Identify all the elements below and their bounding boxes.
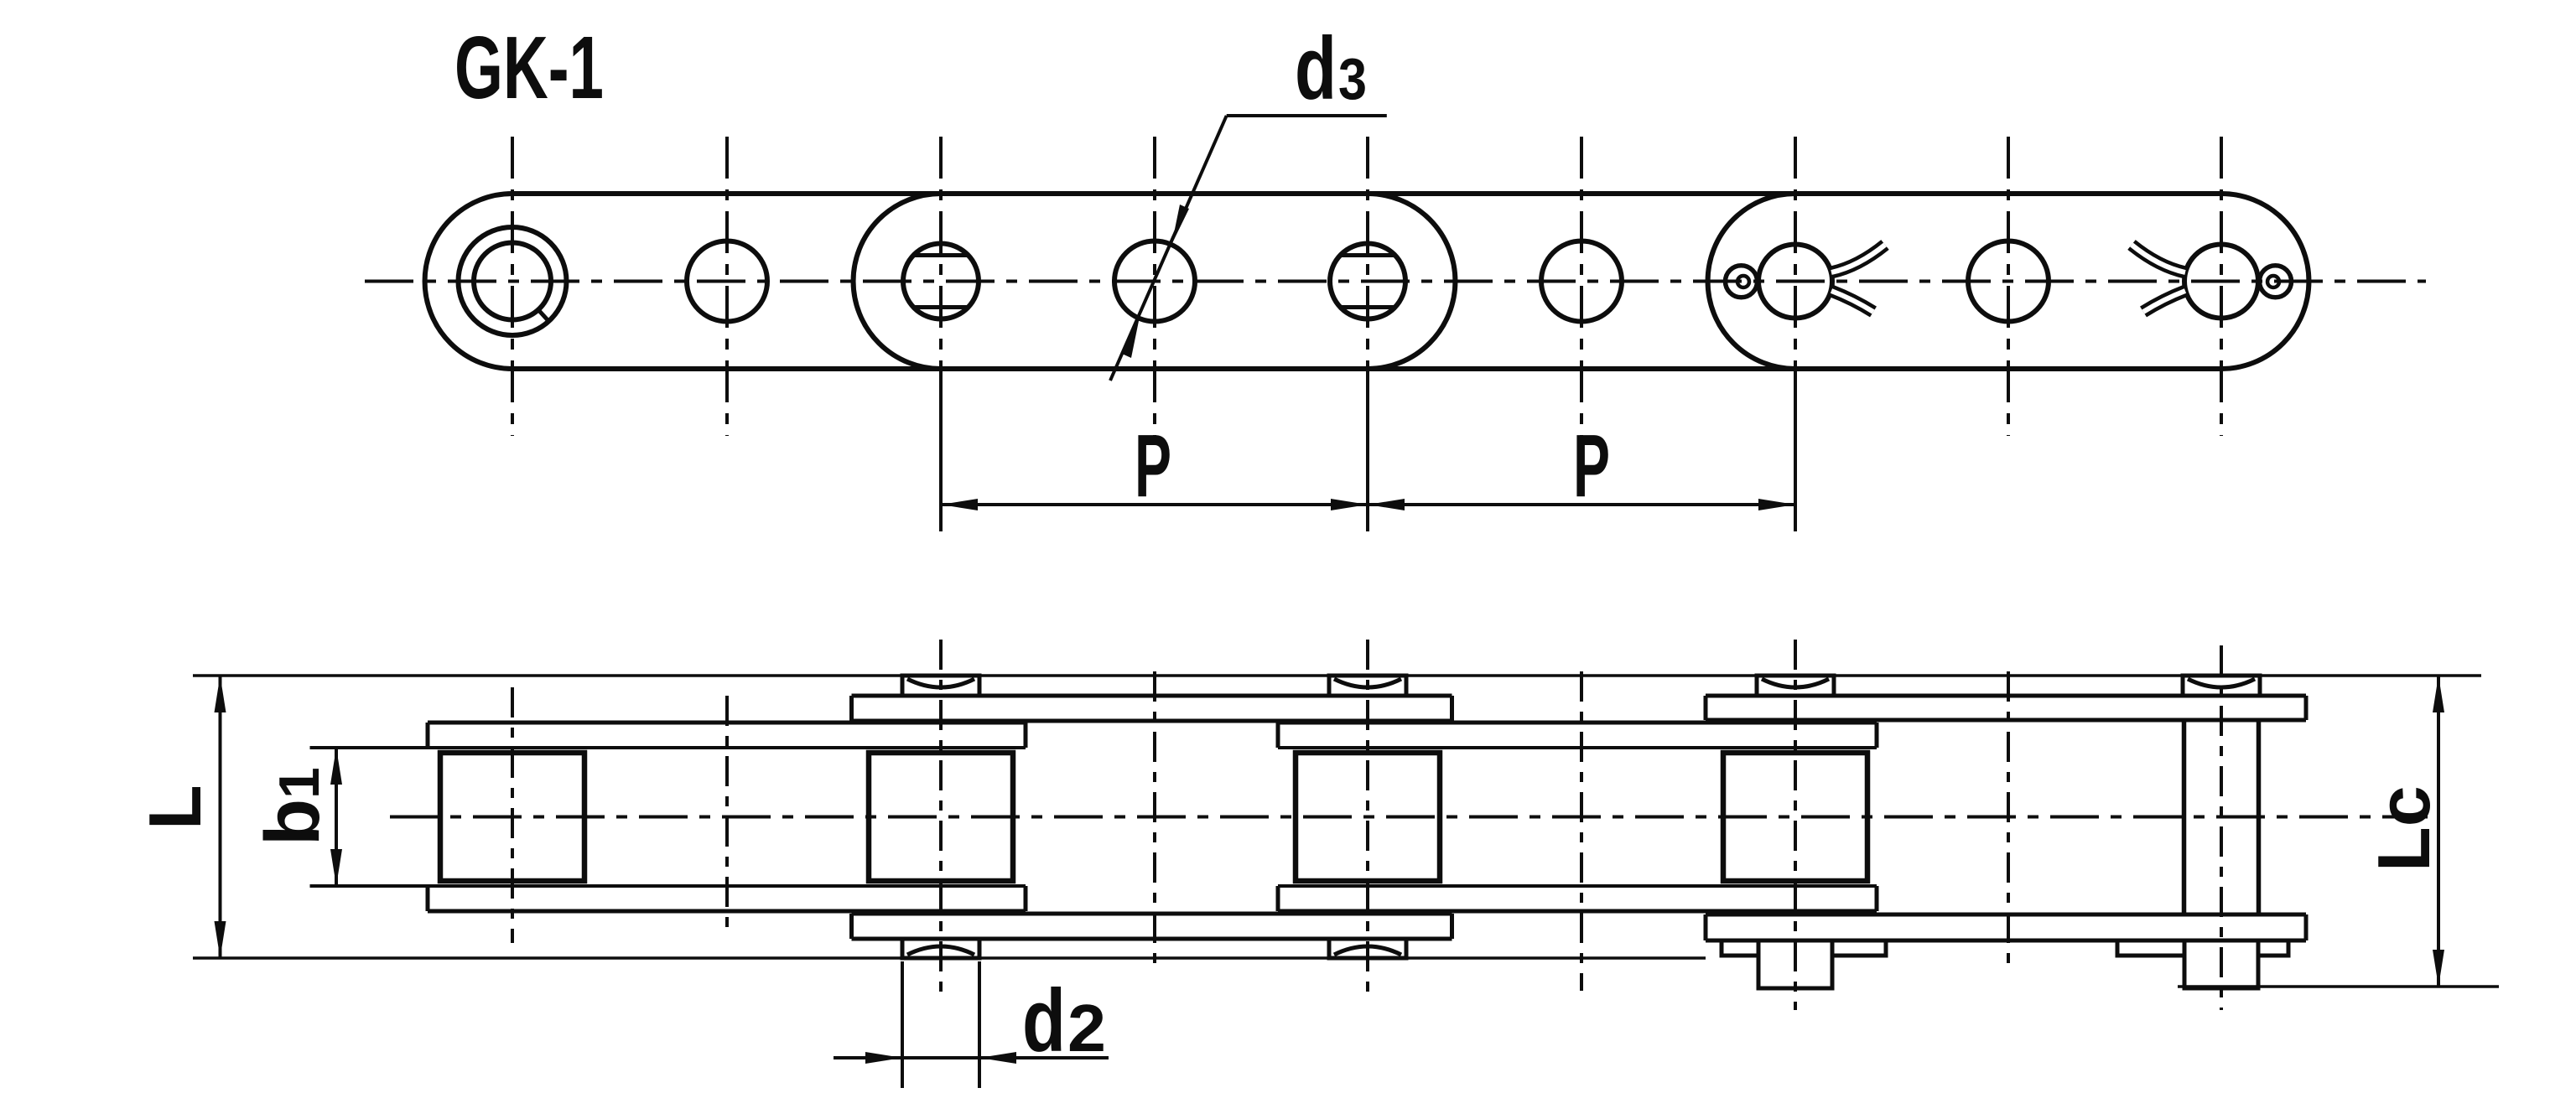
Lc dimension line — [2437, 676, 2440, 987]
svg-text:d: d — [1022, 971, 1066, 1070]
bushed roller hole at x=1122 — [903, 244, 979, 319]
bushing chord lines at x=1122 — [913, 253, 969, 257]
inner plate span 1524-2238 bottom edge — [1278, 909, 1877, 914]
roller at x=611 (plan) — [440, 753, 584, 881]
svg-text:Lc: Lc — [2362, 785, 2445, 872]
inner plate span 510-1223 end verticals — [426, 723, 430, 748]
roller at x=1631 (plan) — [1296, 753, 1440, 881]
d2 dimension line with arrows — [834, 1056, 902, 1059]
plain pin hole at x=1886 — [1541, 241, 1622, 322]
pin-end line / L top extension (plan) — [193, 674, 2481, 677]
vertical centerline x=1886 (plan) — [1580, 671, 1583, 991]
Lc bottom extension line — [2178, 985, 2499, 988]
connecting plate end arc at hole 7 — [1708, 194, 1795, 369]
vertical centerline x=2395 (plan) — [2007, 671, 2010, 968]
roller at x=1122 (plan) — [869, 753, 1013, 881]
vertical centerline x=611 (plan) — [511, 687, 514, 943]
svg-text:P: P — [1573, 417, 1610, 515]
cotter pin hole at x=2141 — [1758, 245, 1832, 319]
bushing inner circle hole 1 — [474, 243, 551, 320]
vertical centerline x=2649 (plan) — [2220, 645, 2223, 1010]
cotter pin assembly under pin 9 — [2117, 940, 2184, 956]
P dimension line 2 — [1368, 503, 1795, 506]
inner plate span 510-1223 top edge — [428, 721, 1026, 725]
svg-text:P: P — [1135, 417, 1171, 515]
leader line for d3 — [1227, 114, 1387, 117]
outer plate end arc at hole 3 — [854, 194, 941, 369]
vertical centerline x=1122 (plan) — [939, 640, 943, 997]
svg-text:L: L — [133, 785, 216, 830]
vertical centerline hole 7 (elevation) — [1794, 137, 1797, 436]
vertical centerline hole 2 (elevation) — [725, 137, 729, 436]
pin top cap at x=1122 — [902, 676, 979, 696]
cotter pin assembly under pin 7 — [1722, 940, 1758, 956]
horizontal centerline (elevation) — [365, 280, 2426, 283]
svg-text:2: 2 — [1067, 991, 1106, 1065]
cotter pin prongs at hole 7 — [1831, 245, 1885, 272]
vertical centerline hole 9 (elevation) — [2220, 137, 2223, 436]
pin-end line / L bottom extension (plan) — [193, 956, 1706, 960]
pin 9 shaft between plates — [2182, 720, 2187, 914]
plain pin hole at x=867 — [687, 241, 767, 322]
cotter pin prongs at hole 9 — [2132, 245, 2185, 272]
pin bottom cap at x=1631 — [1329, 938, 1406, 958]
P dimension extension lines — [939, 366, 943, 531]
dimension arrowheads P — [941, 499, 978, 510]
vertical centerline hole 5 (elevation) — [1366, 137, 1369, 436]
inner plate span 1524-2238 end verticals — [1276, 723, 1280, 748]
bushing outer circle hole 1 — [459, 227, 567, 335]
vertical centerline x=1377 (plan) — [1153, 671, 1156, 968]
L dimension line — [219, 676, 222, 958]
chain plate outline (elevation, rounded band) — [425, 194, 2309, 369]
outer plate end arc at hole 5 — [1368, 194, 1455, 369]
cotter pin ring head at hole 7 — [1726, 266, 1758, 298]
vertical centerline hole 6 (elevation) — [1580, 137, 1583, 436]
svg-text:3: 3 — [1338, 46, 1367, 111]
vertical centerline hole 3 (elevation) — [939, 137, 943, 436]
pin bottom cap at x=1122 — [902, 938, 979, 958]
P dimension line 1 — [941, 503, 1368, 506]
vertical centerline hole 1 (elevation) — [511, 137, 514, 436]
vertical centerline x=1631 (plan) — [1366, 640, 1369, 997]
d2 extension lines — [901, 961, 904, 1088]
b1 dimension line — [335, 748, 338, 886]
spring clip gap mark hole 1 — [539, 310, 549, 321]
bushing chord lines at x=1631 — [1340, 253, 1395, 257]
svg-text:GK-1: GK-1 — [454, 18, 604, 117]
svg-text:1: 1 — [267, 767, 331, 799]
cotter pin ring head at hole 9 — [2260, 266, 2292, 298]
svg-text:b: b — [250, 799, 335, 846]
pin top cap at x=1631 — [1329, 676, 1406, 696]
bushed roller hole at x=1631 — [1330, 244, 1405, 319]
cotter pin hole at x=2649 — [2184, 245, 2258, 319]
plain pin hole at x=1377 — [1114, 241, 1195, 322]
inner plate span 510-1223 bottom edge — [428, 909, 1026, 914]
pin top cap at x=2649 — [2183, 676, 2260, 696]
outer link 3-5 plates — [852, 694, 1452, 698]
roller at x=2141 (plan) — [1723, 753, 1867, 881]
b1 inner-width lines (also extension lines) — [310, 746, 1026, 749]
horizontal centerline (plan) — [390, 816, 2428, 819]
vertical centerline x=2141 (plan) — [1794, 640, 1797, 1010]
leader arrowheads d3 — [1171, 205, 1189, 245]
plain pin hole at x=2395 — [1968, 241, 2049, 322]
vertical centerline hole 8 (elevation) — [2007, 137, 2010, 436]
inner plate span 1524-2238 top edge — [1278, 721, 1877, 725]
svg-text:d: d — [1295, 19, 1337, 118]
connecting link 7-9 plates — [1706, 694, 2306, 698]
vertical centerline x=867 (plan) — [725, 696, 729, 936]
pin top cap at x=2141 — [1757, 676, 1834, 696]
vertical centerline hole 4 (elevation) — [1153, 137, 1156, 436]
